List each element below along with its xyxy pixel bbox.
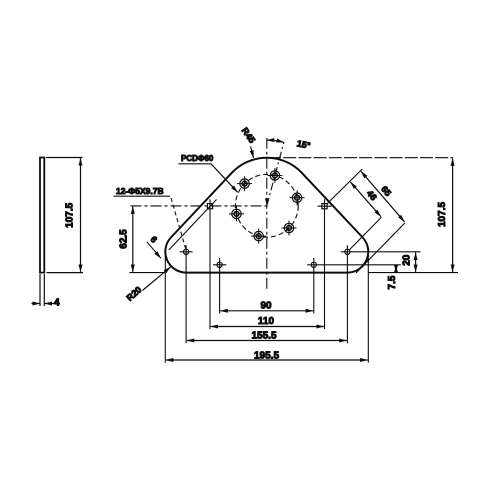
svg-text:195.5: 195.5 (254, 351, 279, 362)
svg-text:90: 90 (260, 300, 272, 311)
dim 107.5 side (80, 158, 82, 272)
dim 90 (220, 310, 313, 312)
side view extension lines for thickness 4 (40, 274, 44, 306)
main outline (165, 158, 368, 273)
hole bottom inner-left (217, 262, 222, 267)
dim 62.5 (132, 207, 134, 272)
PCD hole left-upper (237, 176, 252, 191)
hole bottom inner-right (311, 262, 316, 267)
centerline through slot holes (6 dim reference) (169, 200, 217, 250)
vertical centerline (266, 138, 268, 289)
PCD hole left-lower (229, 206, 244, 221)
extension line C (356, 223, 405, 273)
hole bottom outer-right (345, 249, 350, 254)
square hole left (207, 204, 212, 209)
svg-text:R45: R45 (240, 126, 258, 145)
svg-text:PCDΦ60: PCDΦ60 (181, 154, 214, 163)
dim 7.5 (395, 265, 397, 272)
bottom extension to right (368, 272, 458, 274)
svg-text:62.5: 62.5 (118, 229, 129, 249)
dashed leader to hole (171, 198, 186, 249)
svg-text:R20: R20 (125, 285, 144, 303)
PCD hole bottom (251, 229, 266, 244)
side view plate (40, 158, 44, 273)
svg-text:20: 20 (402, 254, 413, 266)
dim 195.5 (166, 359, 368, 361)
extension line A through right square hole (327, 169, 362, 204)
svg-text:65: 65 (379, 184, 393, 198)
hole bottom outer-left (184, 249, 189, 254)
svg-text:107.5: 107.5 (65, 202, 76, 227)
svg-text:7.5: 7.5 (387, 275, 398, 289)
dim 65 (361, 171, 405, 221)
extension line E (349, 217, 381, 250)
svg-text:15°: 15° (296, 138, 312, 151)
horizontal centerline (131, 205, 269, 207)
center arrow on vertical centerline (265, 198, 269, 205)
PCD hole right-lower (282, 221, 297, 236)
svg-text:107.5: 107.5 (437, 202, 448, 227)
dim 6 (147, 242, 161, 259)
svg-text:4: 4 (54, 298, 60, 309)
dim 107.5 main (452, 158, 454, 272)
PCD hole top (267, 168, 282, 183)
dim 155.5 (187, 340, 347, 342)
svg-text:12-Φ5X9.7B: 12-Φ5X9.7B (116, 186, 164, 196)
dim 4 (32, 303, 40, 305)
angular dim 15deg arc (267, 140, 284, 142)
dim 46 (350, 182, 381, 217)
side view 107.5 extension lines (46, 158, 83, 273)
radial 15deg dashed line (267, 142, 284, 206)
square hole right (322, 204, 327, 209)
top extension to right (268, 157, 453, 159)
PCD circle dashed (235, 174, 298, 237)
PCD hole right-upper (290, 190, 305, 205)
left bottom edge extension (130, 272, 166, 274)
svg-text:155.5: 155.5 (251, 330, 276, 341)
svg-text:110: 110 (258, 316, 275, 327)
dim 110 (211, 326, 324, 328)
extension lines bottom extremes (165, 253, 368, 363)
dim 20 (415, 253, 417, 272)
svg-text:6: 6 (148, 234, 159, 244)
